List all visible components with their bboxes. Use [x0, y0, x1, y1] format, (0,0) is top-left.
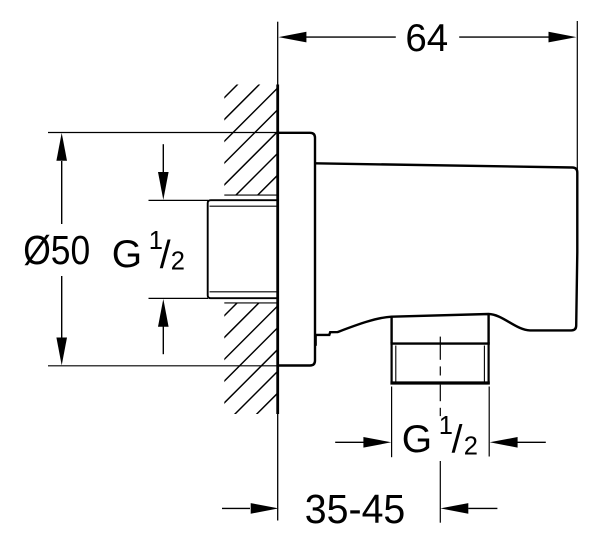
thread outer right edge: [488, 343, 490, 384]
escutcheon flange: [277, 133, 315, 366]
outlet G 1/2 dim: right extension line: [488, 387, 490, 457]
inlet thread dim: upper extension line: [149, 199, 209, 201]
svg-text:64: 64: [405, 17, 448, 60]
inlet G 1/2 label: [112, 227, 185, 277]
body outline with outlet boss underside curve: [315, 163, 577, 335]
dimension 64: dimension line: [305, 36, 549, 38]
svg-text:Ø50: Ø50: [23, 227, 90, 273]
outlet G 1/2 dim: left line and arrowhead: [335, 441, 364, 443]
thread root line right: [483, 346, 485, 384]
svg-text:35-45: 35-45: [305, 486, 406, 532]
thread outer left edge: [391, 343, 393, 384]
inlet thread dim: lower extension line: [149, 297, 209, 299]
inlet thread dim: lower line and up arrowhead: [162, 326, 164, 354]
thread bottom end line: [390, 381, 489, 384]
dimension 35-45: left line and arrowhead: [222, 507, 250, 509]
svg-text:/: /: [160, 234, 171, 277]
outlet boss right edge: [487, 314, 489, 343]
svg-text:2: 2: [171, 248, 185, 276]
svg-text:2: 2: [464, 432, 478, 460]
dimension D50: top extension line: [48, 132, 277, 134]
dimension 64: left arrowhead: [279, 32, 307, 43]
dimension 64: right arrowhead: [549, 32, 577, 43]
dimension D50: dimension line: [61, 161, 63, 339]
dimension D50: top arrowhead: [56, 133, 67, 161]
wall hatching: [0, 60, 600, 440]
inlet thread dim: upper line and down arrowhead: [162, 144, 164, 173]
escutcheon edge jog where body underside meets flange: [315, 335, 317, 346]
dimension 35-45: right arrowhead and line: [440, 503, 468, 514]
svg-text:/: /: [452, 419, 463, 462]
dimension 64: extension line right: [576, 21, 578, 226]
outlet boss left edge: [390, 317, 392, 344]
wall face line (thin top extension, thick wall edge, thin bottom extension): [277, 22, 279, 521]
thread root line left: [395, 346, 397, 384]
outlet G 1/2 dim: right line and arrowhead: [517, 441, 546, 443]
thread shoulder line: [390, 342, 489, 344]
inlet thread pipe (behind wall): [208, 200, 278, 298]
dimension D50: bottom extension line: [48, 365, 277, 367]
dimension D50: bottom arrowhead: [56, 338, 67, 366]
outlet G 1/2 label: [402, 412, 478, 462]
outlet G 1/2 dim: left extension line: [391, 387, 393, 458]
wall hole lower boundary line: [224, 302, 277, 304]
outlet centerline (dashed): [439, 337, 441, 523]
wall hole upper boundary line: [224, 194, 277, 196]
svg-text:G: G: [402, 418, 432, 461]
svg-text:G: G: [112, 233, 142, 276]
